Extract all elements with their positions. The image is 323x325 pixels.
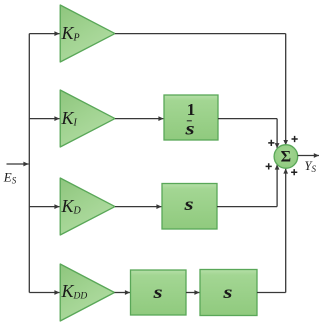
wire: bus to K_D amplifier — [29, 206, 59, 208]
wire: summing junction output Y_S — [298, 155, 319, 157]
op-amp KP gain triangle — [60, 5, 115, 62]
svg-text:s: s — [183, 194, 193, 215]
wire: bus to K_I amplifier — [29, 118, 59, 120]
svg-text:s: s — [184, 118, 194, 139]
svg-text:Σ: Σ — [281, 149, 291, 166]
wire: K_DD output into first s block — [115, 292, 131, 294]
wire: main vertical bus — [28, 34, 30, 293]
wire: bus to K_DD amplifier — [29, 292, 59, 294]
wire: up into summing junction lower-left — [276, 164, 278, 206]
wire: bus to K_P amplifier — [29, 33, 59, 35]
node: 1/s fraction label — [184, 100, 195, 139]
wire: K_D output into derivative block — [115, 206, 162, 208]
node: plus sign lower-right — [291, 169, 297, 175]
block: first s of double derivative — [131, 270, 187, 315]
svg-text:ES: ES — [3, 170, 17, 186]
svg-text:1: 1 — [187, 100, 196, 119]
wire: up into summing junction bottom — [285, 168, 287, 292]
wire: E_S input arrow into bus — [7, 163, 29, 165]
wire: K_I output into integrator block — [115, 118, 164, 120]
node: plus sign upper-right — [292, 136, 298, 142]
wire: down into summing junction upper-left — [276, 119, 278, 149]
block: second s of double derivative — [200, 270, 257, 316]
summing junction sigma circle — [274, 145, 298, 169]
op-amp KI gain triangle — [60, 90, 115, 147]
svg-text:s: s — [152, 282, 162, 303]
op-amp KDD gain triangle — [60, 264, 114, 321]
wire: integrator output to right — [218, 118, 277, 120]
wire: between the two s blocks — [186, 292, 200, 294]
node: plus sign lower-left — [266, 163, 272, 169]
wire: derivative output to right — [217, 206, 277, 208]
node: plus sign upper-left — [268, 140, 274, 146]
block: integrator 1/s — [164, 95, 218, 140]
block: derivative s — [162, 184, 217, 230]
svg-text:s: s — [222, 282, 232, 303]
op-amp KD gain triangle — [60, 178, 115, 235]
wire: K_P output to top corner — [115, 33, 286, 35]
svg-text:YS: YS — [305, 159, 317, 174]
wire: second s output to bottom corner — [257, 292, 286, 294]
wire: down into summing junction top — [285, 34, 287, 146]
